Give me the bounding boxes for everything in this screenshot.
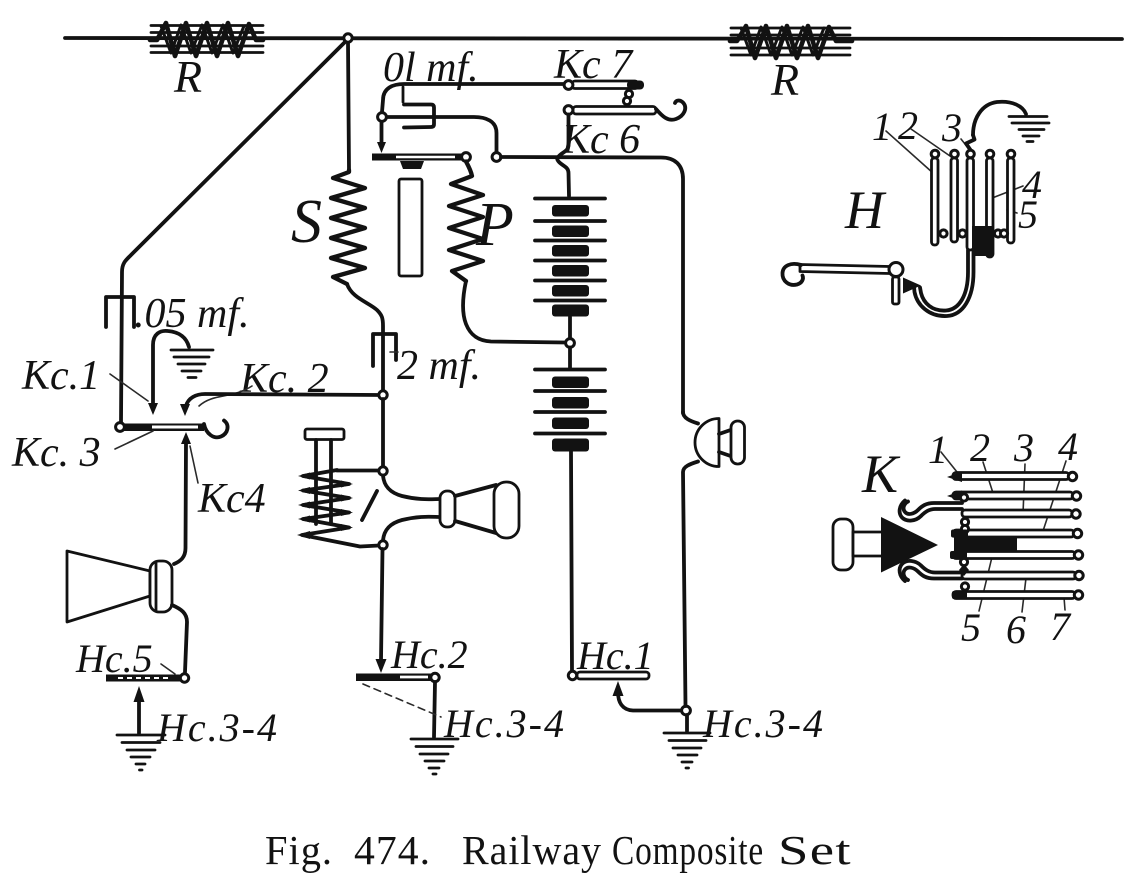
transmitter mouthpiece xyxy=(494,482,519,538)
node: battery mid xyxy=(566,339,575,348)
wire: receiver to Hc.5 xyxy=(172,605,187,672)
svg-text:5: 5 xyxy=(1018,192,1038,237)
contact blade 3 (K) xyxy=(962,510,1072,517)
svg-text:Hc.2: Hc.2 xyxy=(390,632,468,677)
wire: armature to right riser xyxy=(501,157,683,413)
leader 3 xyxy=(961,139,969,149)
contact blade 7 (K) xyxy=(953,592,1075,599)
svg-text:4: 4 xyxy=(1058,424,1078,469)
wire: Kc7 line from node down-curve xyxy=(382,84,569,112)
leader 3 (K) xyxy=(1023,464,1025,514)
svg-text:P: P xyxy=(475,191,514,259)
wire: S coil to 2mf capacitor xyxy=(347,284,383,392)
wire: riser into speaker xyxy=(683,412,698,424)
key shaft xyxy=(853,532,884,556)
wire: drop from line node to S coil xyxy=(348,42,349,170)
svg-text:Fig.: Fig. xyxy=(265,827,333,873)
wire: P bottom to battery mid node xyxy=(463,281,565,343)
svg-text:Set: Set xyxy=(778,827,852,873)
leader line Kc. 2 xyxy=(199,386,252,406)
svg-text:Hc.3-4: Hc.3-4 xyxy=(156,705,279,750)
svg-text:2 mf.: 2 mf. xyxy=(397,343,481,389)
hook curl xyxy=(782,264,803,285)
relay core (rectangle) xyxy=(399,179,422,276)
label I xyxy=(362,491,377,520)
wire+arrowhead: node down to armature xyxy=(380,122,384,142)
svg-text:Kc4: Kc4 xyxy=(197,476,266,522)
node at left end of Kc.3 bar xyxy=(116,423,125,432)
resistor P (zigzag) xyxy=(449,162,483,282)
pivot wedge (black) xyxy=(903,278,921,294)
svg-text:7: 7 xyxy=(1050,604,1072,649)
leader line Kc4 xyxy=(190,446,198,483)
svg-text:Kc 7: Kc 7 xyxy=(553,42,634,88)
speaker mouthpiece xyxy=(731,421,745,464)
wire: Hc.2 to ground xyxy=(434,682,435,737)
svg-text:1: 1 xyxy=(872,104,892,149)
spring 2 xyxy=(951,158,958,242)
svg-text:3: 3 xyxy=(1013,425,1034,470)
upper jaw spring xyxy=(900,501,962,521)
wire: arc from Kc.1 contact to ground xyxy=(153,331,189,406)
induction coil I: winding zigzag xyxy=(302,470,379,547)
capacitor .05 mf (staple over wire) xyxy=(106,297,134,327)
svg-text:.05 mf.: .05 mf. xyxy=(134,291,250,337)
dashed leader to Hc.3-4 xyxy=(363,684,441,717)
svg-text:Kc. 3: Kc. 3 xyxy=(11,430,101,476)
contact bar Kc.3 xyxy=(122,424,204,432)
leader line Kc.1 xyxy=(110,374,148,401)
wire: core to transmitter node xyxy=(337,469,378,473)
svg-text:R: R xyxy=(770,54,799,105)
contact block (black) xyxy=(972,226,993,256)
node: Hc.1 left xyxy=(568,671,576,679)
svg-text:2: 2 xyxy=(898,103,918,148)
svg-text:Composite: Composite xyxy=(612,827,764,873)
wire: down to induction coil node xyxy=(381,399,385,467)
leader 5 (K) xyxy=(979,557,992,611)
wire: battery to Hc.1 xyxy=(571,451,572,671)
transmitter throat (bottom curve) xyxy=(383,517,441,541)
leader tick .01mf xyxy=(402,87,405,102)
lever pivot xyxy=(889,263,903,277)
wire: top line xyxy=(65,38,1122,39)
wire: battery mid link xyxy=(568,317,572,338)
node on telegraph line xyxy=(344,34,352,42)
Kc6 hook end xyxy=(656,100,685,119)
stem U-curve to springs xyxy=(920,250,968,311)
contact blade 1 (K) xyxy=(953,473,1069,480)
leader 1 xyxy=(886,131,933,173)
armature stop block xyxy=(400,161,424,169)
key wedge (black) xyxy=(881,517,938,573)
transmitter horn lines xyxy=(455,485,496,533)
arrowhead Kc4 (pointing up at bar) xyxy=(181,432,191,444)
capacitor 2 mf (staple over wire) xyxy=(373,334,396,366)
wire: spring 3 to ground xyxy=(973,102,1026,135)
contact blade 2 (K) xyxy=(953,492,1073,499)
pivot post xyxy=(893,277,900,304)
node at right end of Hc.5 bar xyxy=(180,674,188,682)
svg-text:K: K xyxy=(861,444,901,504)
hook lever arm xyxy=(800,265,890,274)
key contact Kc 6 blade xyxy=(573,107,656,115)
node: Kc6 left xyxy=(564,106,573,115)
leader line Kc. 3 xyxy=(115,431,153,449)
node: transmitter top xyxy=(379,467,387,475)
contact block (black, K) xyxy=(954,538,1017,553)
svg-text:Hc.5: Hc.5 xyxy=(75,636,153,681)
key knob xyxy=(833,519,853,570)
ground (Hc.3-4 right) xyxy=(664,733,710,768)
svg-text:Hc.1: Hc.1 xyxy=(576,633,654,678)
node: right riser bottom xyxy=(682,706,691,715)
receiver capsule xyxy=(150,561,172,612)
ground (Hc.3-4 left) xyxy=(117,735,165,770)
battery B (upper group) xyxy=(535,199,605,317)
Kc6 contact point above blade xyxy=(623,97,630,104)
arrowhead at Kc.2 contact xyxy=(180,404,190,416)
transmitter collar xyxy=(440,491,455,527)
leader dash Hc.5 xyxy=(161,664,175,674)
caption xyxy=(265,827,852,873)
wire+arrow: Hc.1 to right riser node xyxy=(618,692,681,711)
lower jaw spring xyxy=(900,561,962,581)
induction coil I: core legs xyxy=(316,440,331,524)
loud speaker (right riser) dome xyxy=(695,419,719,467)
leader tick 2mf xyxy=(390,351,398,353)
receiver horn (bottom-left) xyxy=(67,551,150,622)
key K xyxy=(833,424,1083,652)
svg-text:6: 6 xyxy=(1006,607,1026,652)
hook at right end of Kc.3 bar xyxy=(204,421,228,438)
resistor R (left line coil) xyxy=(150,23,263,56)
relay armature bar xyxy=(372,154,463,161)
node: relay left xyxy=(378,113,387,122)
Kc7 black tip xyxy=(627,81,644,90)
node: transmitter bottom xyxy=(379,541,387,549)
black left end blade 7 xyxy=(952,591,967,599)
leader 2 xyxy=(911,129,950,156)
node: back-contact xyxy=(492,153,501,162)
coil S (zigzag) xyxy=(331,170,365,284)
wire: Kc6 down to battery with crossover jog xyxy=(557,115,569,197)
wire: node through bracket to armature node xyxy=(385,117,497,152)
svg-text:S: S xyxy=(291,188,322,256)
contact blade 6 (K) xyxy=(962,572,1076,579)
ground (under .05 mf arc) xyxy=(171,350,213,378)
battery B (lower group) xyxy=(568,348,572,370)
arrow up from ground to Hc.5 xyxy=(137,701,141,733)
spring 4 xyxy=(987,158,994,257)
contact blade 5 (K) xyxy=(953,552,1075,559)
svg-text:5: 5 xyxy=(961,605,981,650)
svg-text:Kc.1: Kc.1 xyxy=(21,353,100,399)
svg-text:1: 1 xyxy=(928,427,948,472)
leader 6 (K) xyxy=(1022,578,1026,612)
spring 5 xyxy=(1008,158,1015,243)
wire: diagonal from line node down-left xyxy=(121,42,345,423)
resistor R (right line coil) xyxy=(730,26,852,58)
leader 4 xyxy=(987,186,1023,200)
wire: node to ground xyxy=(685,715,689,731)
node: Kc7 left xyxy=(564,81,573,90)
contact bar Hc.1 xyxy=(577,672,649,679)
node: junction Kc.2 wire / 2mf xyxy=(379,391,387,399)
svg-text:3: 3 xyxy=(941,105,962,150)
svg-text:0l mf.: 0l mf. xyxy=(383,45,479,91)
contact blade 4 (K) xyxy=(953,530,1074,537)
svg-text:Hc.3-4: Hc.3-4 xyxy=(443,701,566,746)
black left end blade 5 xyxy=(950,551,967,559)
contact points (K left) xyxy=(960,494,967,501)
wire: Kc.2 spring wire with arrowhead xyxy=(186,394,383,406)
induction coil I: core cap xyxy=(305,429,344,440)
ground (Hc.3-4 mid) xyxy=(411,739,458,774)
spring 3 xyxy=(967,158,974,250)
wire: transmitter to Hc.2 with arrowhead xyxy=(381,549,383,661)
wire: Kc4 down to receiver xyxy=(174,442,186,564)
speaker horn neck xyxy=(719,430,732,457)
contact points xyxy=(940,230,947,237)
spring 1 xyxy=(932,158,939,245)
svg-text:2: 2 xyxy=(970,425,990,470)
leader 7 (K) xyxy=(1064,597,1065,610)
Kc7 contact point below tip xyxy=(625,90,632,97)
svg-text:R: R xyxy=(173,51,202,102)
black left end blade 4 xyxy=(951,530,968,538)
leader 1 (K) xyxy=(941,452,961,477)
arrowhead at Kc.1 contact xyxy=(148,403,158,415)
hook switch H xyxy=(782,102,1049,316)
node: Hc.2 right xyxy=(431,673,439,681)
svg-text:Hc.3-4: Hc.3-4 xyxy=(702,701,825,746)
contact bar Hc.5 xyxy=(106,675,184,682)
svg-text:474.: 474. xyxy=(354,827,431,873)
key contact Kc 7 blade xyxy=(572,81,638,89)
leader 5 xyxy=(1007,210,1017,213)
capacitor .01 mf (bracket) xyxy=(404,105,434,128)
ground (H, top right) xyxy=(1009,117,1049,142)
leader 4 (K) xyxy=(1043,461,1066,531)
contact bar Hc.2 xyxy=(356,674,433,682)
node: armature right xyxy=(462,153,471,162)
leader 2 (K) xyxy=(983,462,993,493)
transmitter throat (top curve) xyxy=(383,476,441,500)
winding arrowheads xyxy=(297,473,353,540)
svg-text:H: H xyxy=(844,180,887,240)
svg-text:Railway: Railway xyxy=(462,827,602,873)
